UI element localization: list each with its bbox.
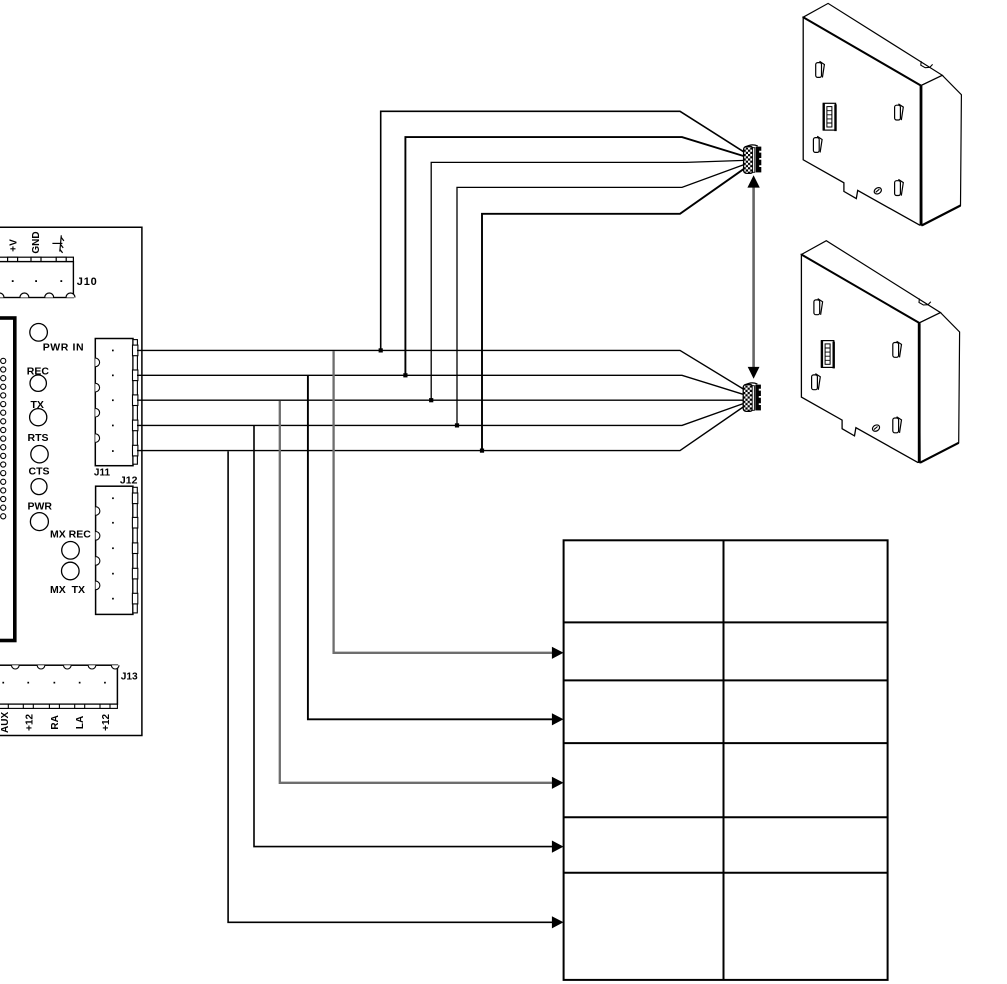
svg-text:AUX: AUX: [0, 712, 11, 733]
svg-text:MX TX: MX TX: [50, 584, 85, 596]
LED MX REC: [62, 542, 80, 560]
connector J12: [96, 486, 138, 614]
svg-text:J13: J13: [121, 672, 138, 683]
LED PWR: [30, 513, 48, 531]
ground symbol: [52, 235, 64, 253]
LED REC: [30, 375, 46, 391]
table: [564, 540, 888, 980]
svg-text:LA: LA: [75, 716, 86, 729]
junction dot 2: [403, 373, 407, 377]
wire J11 pin4 row: [137, 403, 744, 425]
wire branch up 4: [457, 164, 745, 425]
svg-text:CTS: CTS: [29, 465, 50, 477]
wire branch up 3: [431, 160, 745, 400]
svg-text:J10: J10: [77, 276, 98, 288]
wire branch up 1: [381, 111, 745, 350]
svg-text:PWR IN: PWR IN: [43, 342, 85, 354]
connector J13: [0, 665, 119, 708]
LED MX TX: [62, 562, 80, 580]
svg-text:PWR: PWR: [28, 500, 53, 512]
wire branch down 3 (gray): [280, 401, 553, 783]
wire branch down 5: [228, 451, 552, 922]
wire J11 pin2 row: [137, 375, 744, 394]
junction dot 1: [379, 348, 383, 352]
module 1 (top radio module): [803, 3, 961, 225]
junction dot 5: [480, 449, 484, 453]
wire J11 pin1 row: [137, 350, 744, 389]
arrowhead row3: [552, 713, 564, 725]
IC pads column: [1, 358, 6, 519]
wire branch down 4: [254, 426, 553, 847]
svg-text:RTS: RTS: [28, 432, 49, 444]
connector J11: [95, 339, 138, 466]
svg-text:+V: +V: [8, 239, 19, 252]
LED RTS: [31, 446, 48, 463]
LED CTS: [31, 479, 47, 495]
svg-text:MX REC: MX REC: [50, 529, 91, 541]
wire branch up 2: [405, 137, 744, 375]
LED PWR IN: [30, 324, 48, 342]
LED TX: [30, 409, 47, 426]
ribbon connector P1: [744, 145, 762, 174]
junction dot 4: [455, 423, 459, 427]
connector J10: [0, 257, 75, 297]
module 2 (bottom radio module): [801, 241, 959, 463]
ribbon connector P2: [743, 383, 761, 412]
wire branch up 5: [482, 168, 745, 450]
svg-text:+12: +12: [101, 713, 112, 730]
arrowhead row2: [552, 647, 564, 659]
wire branch down 1 (gray): [334, 351, 553, 653]
wire J11 pin3 row: [137, 399, 744, 401]
arrowhead row4: [552, 777, 564, 789]
svg-text:+12: +12: [25, 713, 36, 730]
board outline: [0, 227, 142, 735]
double arrow between connectors: [747, 175, 759, 379]
svg-text:J12: J12: [120, 475, 138, 487]
arrowhead row6: [552, 916, 564, 928]
junction dot 3: [429, 398, 433, 402]
svg-text:GND: GND: [31, 231, 42, 253]
wire J11 pin5 row: [137, 407, 744, 451]
wire branch down 2: [308, 376, 553, 719]
svg-text:J11: J11: [94, 467, 111, 478]
IC socket U1: [0, 318, 15, 641]
arrowhead row5: [552, 841, 564, 853]
svg-text:RA: RA: [50, 715, 61, 729]
